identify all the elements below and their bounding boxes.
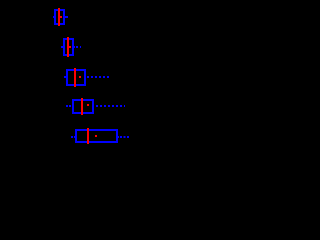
boxplot 1 box xyxy=(55,10,64,24)
boxplot 5 right whisker xyxy=(118,136,119,138)
boxplot 3 right whisker xyxy=(87,76,109,78)
boxplot 1 right whisker xyxy=(65,16,68,18)
boxplot 5 left whisker xyxy=(71,136,75,138)
boxplot 5 median line xyxy=(87,128,89,144)
boxplot 5 mean dot xyxy=(95,135,97,137)
boxplot 1 left whisker xyxy=(53,16,55,18)
boxplot 5 box xyxy=(76,130,117,142)
boxplot 2 mean dot xyxy=(69,46,71,48)
boxplot 2 box xyxy=(64,39,73,55)
boxplot 3 box xyxy=(67,70,85,85)
boxplot 3 mean dot xyxy=(79,76,81,78)
boxplot 4 mean dot xyxy=(87,104,89,106)
boxplot 1 mean dot xyxy=(60,16,62,18)
boxplot 4 box xyxy=(73,100,93,113)
boxplot 2 left whisker xyxy=(61,46,63,48)
boxplot 4 left whisker xyxy=(66,105,72,107)
boxplot 3 median line xyxy=(74,68,76,87)
boxplot 2 right whisker xyxy=(74,46,81,48)
boxplot 3 left whisker xyxy=(64,76,66,78)
boxplot 2 median line xyxy=(67,37,69,57)
boxplot 4 right whisker xyxy=(96,105,125,107)
boxplot 4 median line xyxy=(81,98,83,115)
boxplot 1 median line xyxy=(58,8,60,26)
